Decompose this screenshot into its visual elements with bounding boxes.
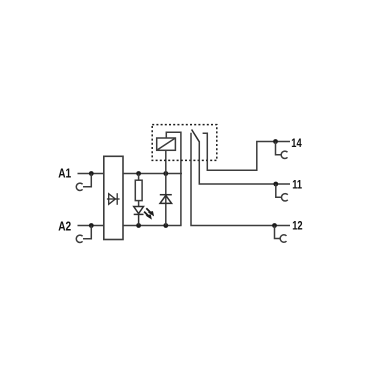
relay dashed box — [152, 125, 217, 161]
relay coil K1 — [157, 138, 176, 150]
input block U1 — [104, 156, 123, 239]
svg-text:A1: A1 — [58, 166, 71, 180]
terminal clamp 11 — [276, 184, 288, 201]
terminal clamp 12 — [275, 226, 287, 243]
LED light arrows — [144, 208, 153, 218]
diode D1 inside block — [107, 193, 120, 205]
node diode bottom — [163, 223, 168, 228]
node A2 junction — [89, 223, 94, 228]
wire coil top loop to A2 net — [166, 132, 181, 225]
svg-text:A2: A2 — [58, 219, 71, 233]
contact blade — [192, 130, 200, 142]
freewheeling diode D3 — [160, 195, 172, 204]
svg-text:11: 11 — [292, 178, 302, 191]
node resistor top — [136, 171, 141, 176]
node terminal 12 — [272, 223, 277, 228]
terminal clamp 14 — [276, 142, 288, 159]
wire coil-bottom / freewheel branch — [165, 150, 167, 225]
node diode top — [163, 171, 168, 176]
wire bottom A2 net — [123, 225, 182, 227]
resistor R1 — [135, 174, 142, 207]
terminal clamp A1 — [76, 174, 91, 191]
LED D2 — [134, 207, 144, 226]
wire A1 — [78, 173, 104, 175]
contact NO line to terminal 14 — [203, 133, 290, 170]
node A1 junction — [89, 171, 94, 176]
node terminal 14 — [273, 139, 278, 144]
node terminal 11 — [273, 182, 278, 187]
svg-text:12: 12 — [292, 219, 302, 232]
wire top A1 net — [123, 173, 182, 175]
contact NC line to terminal 12 — [191, 133, 290, 226]
terminal clamp A2 — [76, 226, 91, 243]
svg-text:14: 14 — [291, 137, 301, 150]
contact common line to terminal 11 — [199, 141, 290, 184]
node resistor bottom — [136, 223, 141, 228]
wire A2 — [78, 225, 104, 227]
